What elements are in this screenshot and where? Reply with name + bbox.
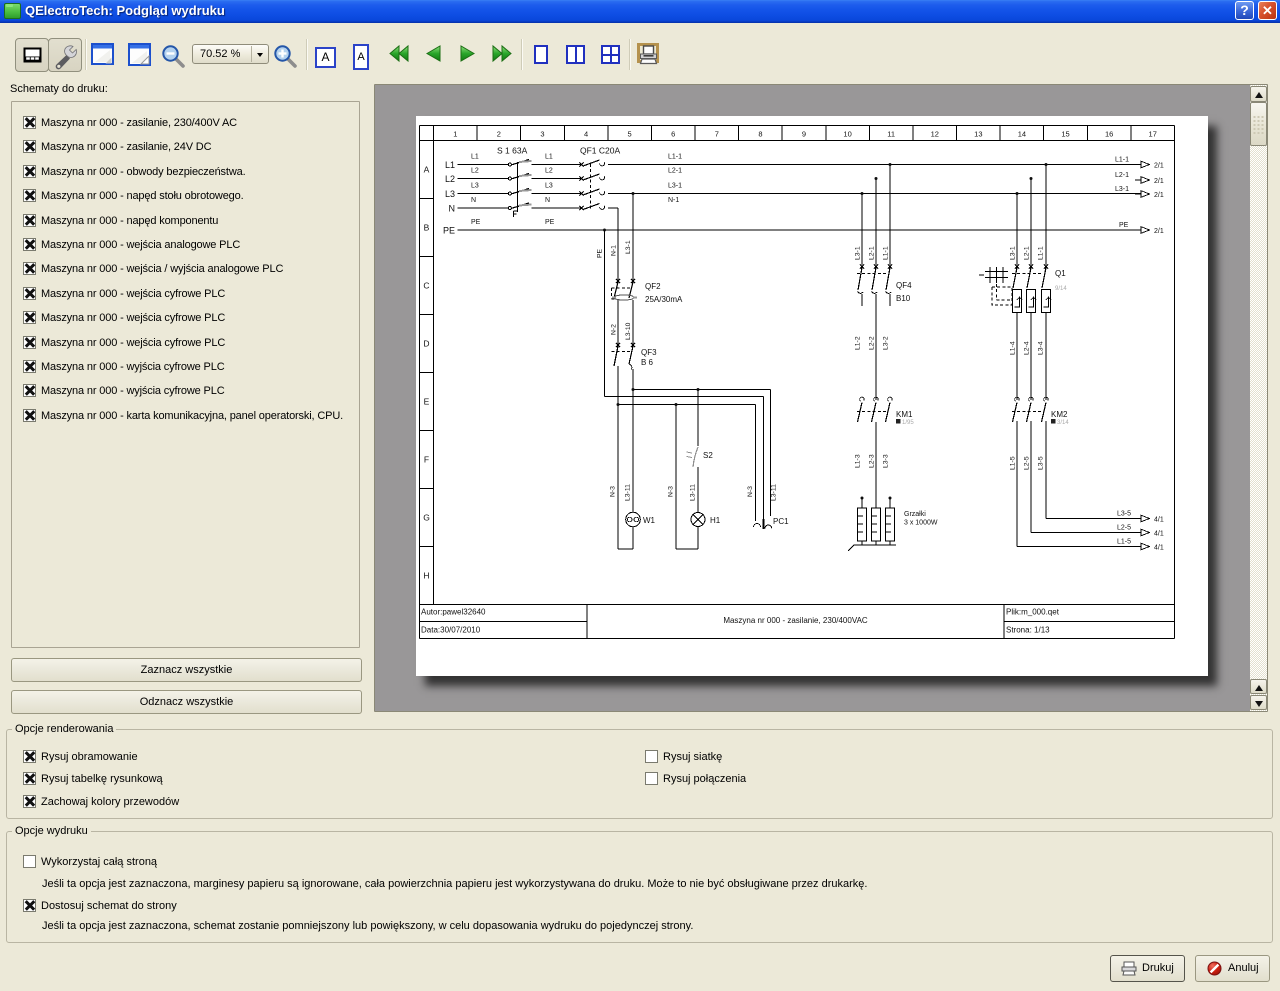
svg-text:F: F [424,455,429,465]
svg-text:L2-1: L2-1 [1024,246,1031,260]
svg-text:3 x 1000W: 3 x 1000W [904,520,938,527]
svg-text:10: 10 [843,130,851,139]
svg-text:N-1: N-1 [611,245,618,256]
svg-text:17: 17 [1149,130,1157,139]
svg-text:L2-4: L2-4 [1024,341,1031,355]
svg-text:L1: L1 [545,154,553,161]
svg-text:12: 12 [931,130,939,139]
svg-text:14: 14 [1018,130,1026,139]
svg-text:L3-2: L3-2 [883,336,890,350]
svg-text:L2-1: L2-1 [1115,172,1129,179]
svg-text:QF2: QF2 [645,282,661,291]
svg-text:5: 5 [628,130,632,139]
svg-text:L3-1: L3-1 [1010,246,1017,260]
svg-text:Grzałki: Grzałki [904,511,926,518]
svg-text:L3-1: L3-1 [668,183,682,190]
svg-text:PC1: PC1 [773,517,789,526]
svg-text:Plik:m_000.qet: Plik:m_000.qet [1006,608,1060,617]
svg-text:L1-3: L1-3 [855,454,862,468]
svg-text:7: 7 [715,130,719,139]
svg-text:9/14: 9/14 [1055,286,1067,292]
svg-text:QF4: QF4 [896,281,912,290]
svg-text:PE: PE [597,248,604,258]
svg-text:L1-1: L1-1 [883,246,890,260]
svg-text:N: N [545,197,550,204]
svg-text:L1-4: L1-4 [1010,341,1017,355]
svg-text:PE: PE [545,219,555,226]
svg-text:L3-3: L3-3 [883,454,890,468]
svg-text:1/95: 1/95 [902,420,914,426]
svg-text:Data:30/07/2010: Data:30/07/2010 [421,626,481,635]
svg-text:KM2: KM2 [1051,410,1068,419]
svg-text:N-2: N-2 [611,324,618,335]
svg-text:L3-11: L3-11 [690,484,697,501]
svg-text:L2-5: L2-5 [1117,525,1131,532]
svg-text:H: H [423,571,429,581]
svg-text:B: B [424,223,430,233]
svg-text:1: 1 [453,130,457,139]
svg-text:C: C [423,281,429,291]
svg-text:4/1: 4/1 [1154,531,1164,538]
svg-text:Strona: 1/13: Strona: 1/13 [1006,626,1050,635]
svg-text:W1: W1 [643,516,656,525]
svg-text:2/1: 2/1 [1154,178,1164,185]
svg-text:2/1: 2/1 [1154,192,1164,199]
svg-text:L3-4: L3-4 [1038,341,1045,355]
svg-text:QF1 C20A: QF1 C20A [580,146,620,156]
svg-text:6: 6 [671,130,675,139]
svg-text:4: 4 [584,130,588,139]
svg-text:N: N [471,197,476,204]
svg-text:L1-1: L1-1 [1038,246,1045,260]
svg-text:KM1: KM1 [896,410,913,419]
svg-text:H1: H1 [710,516,721,525]
svg-text:L1-5: L1-5 [1010,456,1017,470]
svg-text:2/1: 2/1 [1154,228,1164,235]
svg-text:2/1: 2/1 [1154,163,1164,170]
svg-text:N-3: N-3 [668,486,675,497]
svg-text:Maszyna nr 000 - zasilanie, 23: Maszyna nr 000 - zasilanie, 230/400VAC [723,616,868,625]
svg-text:D: D [423,339,429,349]
svg-text:L3-5: L3-5 [1117,511,1131,518]
svg-text:9: 9 [802,130,806,139]
svg-text:4/1: 4/1 [1154,517,1164,524]
svg-text:8: 8 [758,130,762,139]
svg-text:L3-10: L3-10 [625,322,632,340]
svg-text:L3-1: L3-1 [1115,186,1129,193]
svg-text:16: 16 [1105,130,1113,139]
svg-text:N-3: N-3 [610,486,617,497]
svg-text:E: E [424,397,430,407]
svg-text:25A/30mA: 25A/30mA [645,295,683,304]
svg-text:N-3: N-3 [747,486,754,497]
svg-text:L1-1: L1-1 [1115,157,1129,164]
svg-text:PE: PE [471,219,481,226]
svg-text:L2: L2 [471,168,479,175]
svg-text:L1: L1 [445,160,455,170]
svg-text:13: 13 [974,130,982,139]
svg-text:4/1: 4/1 [1154,545,1164,552]
svg-text:3/14: 3/14 [1057,420,1069,426]
svg-text:3: 3 [540,130,544,139]
svg-text:L3: L3 [545,183,553,190]
svg-text:L3-11: L3-11 [625,484,632,501]
svg-text:QF3: QF3 [641,348,657,357]
svg-text:L3: L3 [445,189,455,199]
svg-text:S 1 63A: S 1 63A [497,146,528,156]
svg-text:Autor:pawel32640: Autor:pawel32640 [421,608,486,617]
svg-text:G: G [423,513,430,523]
svg-text:L2-3: L2-3 [869,454,876,468]
svg-text:N-1: N-1 [668,197,679,204]
svg-text:15: 15 [1061,130,1069,139]
svg-text:11: 11 [887,130,895,139]
svg-text:L1-5: L1-5 [1117,539,1131,546]
svg-text:L3-1: L3-1 [625,240,632,254]
svg-text:L2-2: L2-2 [869,336,876,350]
svg-text:N: N [449,204,456,214]
svg-text:PE: PE [443,226,455,236]
svg-text:Q1: Q1 [1055,269,1066,278]
svg-text:L1-1: L1-1 [668,154,682,161]
svg-text:L2-1: L2-1 [869,246,876,260]
svg-text:L3-5: L3-5 [1038,456,1045,470]
svg-text:L2: L2 [545,168,553,175]
svg-text:A: A [424,165,430,175]
svg-text:B10: B10 [896,294,911,303]
svg-text:L3-1: L3-1 [855,246,862,260]
svg-text:L2-5: L2-5 [1024,456,1031,470]
svg-text:L2-1: L2-1 [668,168,682,175]
svg-text:2: 2 [497,130,501,139]
svg-text:B 6: B 6 [641,358,654,367]
svg-text:L1: L1 [471,154,479,161]
svg-text:PE: PE [1119,222,1129,229]
svg-text:L2: L2 [445,174,455,184]
svg-text:L3-11: L3-11 [771,484,778,501]
svg-text:S2: S2 [703,451,713,460]
svg-text:L3: L3 [471,183,479,190]
svg-text:L1-2: L1-2 [855,336,862,350]
